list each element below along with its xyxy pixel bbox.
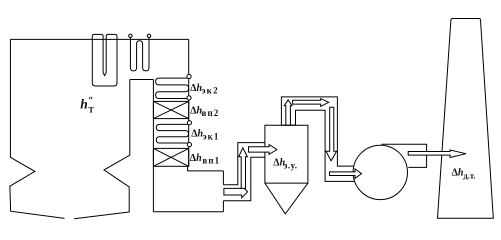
flow arrow ash collector outlet up bbox=[284, 100, 292, 125]
air heater 2 box bbox=[153, 101, 188, 118]
label dh zu ash collector bbox=[273, 157, 297, 170]
svg-text:эк1: эк1 bbox=[203, 131, 220, 141]
furnace left wall and cold-funnel bottom bbox=[10, 39, 65, 218]
svg-text:д.т.: д.т. bbox=[463, 171, 475, 181]
platen superheater inner V bbox=[103, 39, 106, 75]
bottom duct bottom edge bbox=[153, 211, 223, 213]
platen superheater outer U bbox=[92, 39, 117, 86]
flow arrow down to fan bbox=[326, 107, 337, 161]
flue duct over ash collector outer wall bbox=[281, 97, 354, 166]
svg-text:вп1: вп1 bbox=[202, 155, 220, 165]
ash collector hopper cone bbox=[265, 183, 308, 214]
bottom duct right edge (broken by gas outlet) bbox=[222, 171, 224, 212]
dividing wall top edge bbox=[130, 79, 154, 81]
gas duct to riser lower wall bbox=[223, 157, 265, 201]
furnace bottom right slope and right wall with nose bbox=[74, 80, 130, 219]
air heater 2 diagonals bbox=[153, 101, 188, 118]
fan circle bbox=[353, 145, 407, 199]
svg-text:Т: Т bbox=[88, 104, 94, 114]
air heater 1 box bbox=[153, 148, 188, 166]
platen header left bbox=[92, 34, 103, 39]
flow arrow fan to stack bbox=[408, 150, 466, 158]
flow arrow into ash collector bbox=[249, 145, 277, 155]
svg-text:з.у.: з.у. bbox=[284, 160, 298, 170]
economizer 2 inlet circle bbox=[187, 74, 191, 78]
platen header right bbox=[106, 34, 117, 39]
label dh vp2 bbox=[190, 106, 219, 119]
air heater 1 diagonals bbox=[153, 148, 188, 166]
roof coil inlet circle bbox=[129, 34, 132, 37]
ash collector box bbox=[265, 125, 308, 183]
label dh dt stack draft bbox=[452, 167, 476, 180]
svg-text:Δh: Δh bbox=[191, 129, 203, 140]
step between shaft and bottom duct bbox=[188, 166, 224, 171]
boiler roof bbox=[10, 38, 188, 40]
boiler right wall (convective shaft right side) bbox=[188, 39, 190, 166]
svg-text:Δh: Δh bbox=[190, 153, 202, 164]
flow arrow boiler exit horizontal bbox=[224, 185, 248, 197]
fan outlet duct stub bbox=[382, 144, 427, 167]
flow arrow top duct right bbox=[293, 99, 329, 107]
flow arrow into fan bbox=[330, 169, 362, 179]
economizer 2 serpentine bbox=[156, 78, 189, 98]
roof coil outlet circle bbox=[147, 34, 150, 37]
economizer 1 inlet circle bbox=[187, 121, 191, 125]
svg-text:эк2: эк2 bbox=[202, 86, 219, 96]
economizer 2 outlet circle bbox=[187, 96, 191, 100]
label h''t furnace exit enthalpy bbox=[80, 96, 94, 114]
label dh ek1 bbox=[191, 129, 219, 142]
label dh vp1 bbox=[190, 153, 220, 166]
gas duct to riser upper wall bbox=[223, 143, 265, 185]
flow arrow riser up bbox=[239, 148, 248, 189]
svg-text:вп2: вп2 bbox=[202, 108, 220, 118]
svg-text:h: h bbox=[80, 96, 88, 111]
convective shaft left wall bbox=[152, 80, 154, 212]
label dh ek2 bbox=[190, 83, 219, 96]
roof coil serpentine bbox=[130, 38, 149, 71]
stack bbox=[438, 19, 494, 219]
flue duct over ash collector inner wall bbox=[296, 110, 355, 181]
ash collector top edge restored over arrow tail bbox=[281, 124, 296, 126]
economizer 1 serpentine bbox=[156, 124, 188, 143]
svg-text:Δh: Δh bbox=[452, 167, 464, 178]
economizer 1 outlet circle bbox=[187, 143, 191, 147]
